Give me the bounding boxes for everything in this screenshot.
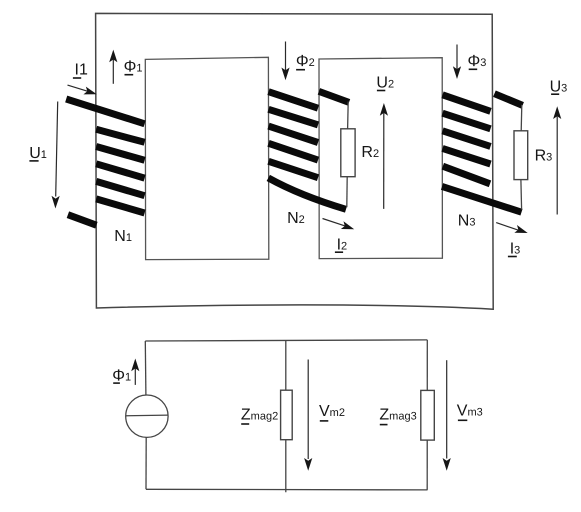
label PHI1 (core) bbox=[124, 59, 143, 76]
wire R3 bottom to N3 bbox=[520, 180, 523, 210]
flux arrow Vm3 bbox=[443, 360, 451, 471]
label I1 bbox=[73, 61, 88, 78]
label PHI2 bbox=[296, 53, 315, 70]
flux arrow PHI2 (core centre leg) bbox=[281, 42, 289, 81]
label U2 bbox=[376, 75, 394, 92]
flux arrow PHI3 (core right leg) bbox=[453, 45, 461, 80]
wire left upper bbox=[144, 341, 147, 395]
impedance Zmag2 bbox=[281, 390, 293, 440]
winding N3 bbox=[442, 94, 523, 213]
wire R2 bottom to N2 bbox=[346, 177, 348, 208]
flux arrow Vm2 bbox=[304, 360, 312, 471]
flux arrow PHI1 (core left leg) bbox=[109, 50, 117, 84]
label Zmag3 bbox=[379, 406, 416, 424]
label I3 bbox=[508, 240, 520, 257]
label PHI3 bbox=[468, 53, 487, 70]
voltage arrow U1 bbox=[51, 102, 59, 209]
core window right bbox=[319, 58, 442, 259]
label PHI1 (source) bbox=[112, 367, 131, 384]
label I2 bbox=[335, 237, 347, 254]
wire right branch bbox=[426, 340, 428, 490]
voltage arrow U2 bbox=[380, 103, 388, 209]
wire left lower bbox=[145, 437, 147, 489]
wire N3 to R3 top bbox=[520, 105, 523, 131]
resistor R3 bbox=[514, 131, 528, 180]
winding N1 bbox=[66, 99, 144, 225]
wire bottom bbox=[146, 488, 428, 491]
label Zmag2 bbox=[241, 407, 278, 424]
arrow I3 bbox=[496, 223, 529, 237]
wire top (magnetic circuit) bbox=[145, 340, 427, 341]
impedance Zmag3 bbox=[421, 390, 435, 440]
voltage arrow U3 bbox=[553, 106, 561, 214]
wire middle branch bbox=[285, 340, 287, 492]
flux arrow PHI1 (source) bbox=[131, 359, 139, 385]
transformer core outline bbox=[96, 13, 494, 309]
wire N2 to R2 top bbox=[347, 102, 350, 130]
arrow I2 bbox=[323, 219, 356, 234]
label U1 bbox=[29, 145, 47, 162]
core window left bbox=[145, 57, 268, 259]
svg-text:I1: I1 bbox=[75, 61, 88, 78]
arrow I1 bbox=[68, 85, 98, 98]
resistor R2 bbox=[341, 129, 355, 177]
flux source PHI1 bbox=[126, 395, 168, 437]
label U3 bbox=[550, 78, 568, 95]
label Vm2 bbox=[319, 403, 345, 421]
winding N2 bbox=[268, 91, 349, 209]
label Vm3 bbox=[457, 403, 483, 421]
